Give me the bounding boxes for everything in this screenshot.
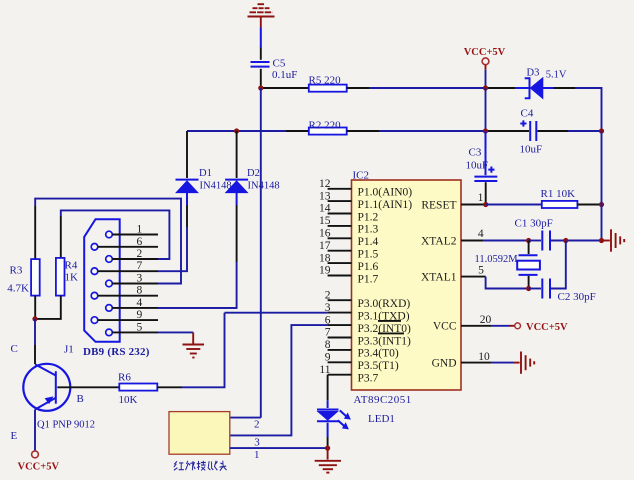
svg-text:LED1: LED1: [368, 413, 395, 425]
wire: IR pin2: [230, 417, 261, 419]
power VCC+5V at pin 20: [515, 322, 568, 333]
svg-text:P3.5(T1): P3.5(T1): [358, 360, 399, 372]
junction crystal bottom: [526, 286, 531, 291]
DB9 pin 8 stub: [98, 295, 158, 297]
junction LED/IR1/ground: [325, 446, 330, 451]
crystal Y1 stem bottom: [528, 276, 530, 289]
power VCC+5V top: [464, 47, 506, 88]
svg-text:19: 19: [319, 265, 331, 277]
capacitor C3 polarized: [474, 167, 497, 182]
svg-text:XTAL2: XTAL2: [421, 235, 457, 247]
svg-text:8: 8: [325, 339, 331, 351]
svg-text:IN4148: IN4148: [200, 180, 232, 191]
label C4 value: [520, 107, 543, 155]
resistor R5: [309, 85, 347, 92]
label D2: [247, 168, 280, 191]
wire: RESET stub: [461, 204, 486, 206]
wire: R2 row (C4 row) full: [187, 130, 309, 132]
IC pin 11 stub: [328, 374, 352, 376]
capacitor C2: [542, 279, 550, 299]
svg-text:6: 6: [325, 314, 331, 326]
wire: R3 top loop to DB9 pin3: [35, 199, 181, 284]
LED1: [317, 400, 351, 446]
label D3 5.1V: [527, 67, 567, 80]
transistor Q1 circle: [23, 364, 70, 411]
ground below LED: [315, 448, 341, 473]
transistor Q1 collector leg: [35, 364, 56, 375]
DB9 pin 6 stub: [98, 246, 158, 248]
svg-text:4: 4: [478, 228, 484, 240]
svg-text:GND: GND: [432, 358, 457, 370]
wire: emitter to VCC: [34, 410, 36, 451]
resistor R4: [56, 258, 65, 296]
svg-text:VCC+5V: VCC+5V: [526, 322, 568, 333]
svg-text:P1.1(AIN1): P1.1(AIN1): [358, 199, 413, 211]
svg-text:C4: C4: [521, 107, 534, 119]
svg-text:P3.3(INT1): P3.3(INT1): [358, 335, 412, 347]
junction R1/rail: [599, 202, 604, 207]
svg-text:P3.4(T0): P3.4(T0): [358, 348, 399, 360]
IC pin 18 stub: [328, 262, 352, 264]
svg-text:R3: R3: [10, 264, 23, 276]
svg-text:2: 2: [325, 289, 331, 301]
svg-text:5: 5: [137, 321, 143, 333]
resistor R3: [31, 259, 40, 296]
svg-text:5.1V: 5.1V: [546, 70, 567, 81]
svg-text:10uF: 10uF: [520, 144, 543, 156]
junction R2 row at D2: [234, 128, 239, 133]
svg-text:P1.4: P1.4: [358, 236, 379, 248]
ground (earth) top, above C5: [248, 4, 275, 16]
wire: XTAL1 step down to C2 row: [486, 277, 529, 289]
junction VCC/R5 row: [483, 85, 488, 90]
wire: D3 to right rail corner: [554, 88, 602, 131]
diode D1: [176, 180, 199, 193]
IC pin 6 stub: [328, 324, 352, 326]
IC pin 12 stub: [328, 188, 352, 190]
label D1: [199, 168, 232, 191]
wire: C3 bottom to RESET junction: [485, 182, 487, 202]
wire: right rail 131 to 240.5: [601, 131, 603, 241]
svg-text:D1: D1: [199, 168, 212, 179]
svg-text:14: 14: [319, 203, 331, 215]
label R6: [118, 371, 138, 406]
resistor R1: [542, 201, 578, 208]
label R3: [7, 264, 29, 294]
svg-text:P1.5: P1.5: [358, 249, 379, 261]
wire: INT0 row, vertical and IR pin3: [230, 325, 328, 435]
wire: D1 anode down to DB9 pin7: [158, 193, 187, 272]
wire: D1 top branch: [186, 131, 188, 178]
wire: main vertical net C5 to IR pin2: [260, 88, 262, 418]
pin name P3.1(TXD) underlined: [358, 310, 410, 322]
svg-text:12: 12: [319, 178, 331, 190]
svg-text:C: C: [11, 343, 18, 355]
junction C5/R5 node: [258, 85, 263, 90]
wire: crystal junction to C2: [529, 288, 541, 290]
svg-text:C3: C3: [469, 146, 482, 158]
svg-text:IC2: IC2: [353, 170, 370, 182]
svg-text:D3: D3: [527, 67, 540, 78]
IC pin 3 stub: [328, 312, 352, 314]
DB9 pin 7 stub: [98, 270, 158, 272]
wire: R4 top loop to DB9 pin2: [61, 210, 170, 259]
junction rail/ground right: [599, 238, 604, 243]
svg-text:0.1uF: 0.1uF: [272, 69, 297, 81]
svg-text:R5 220: R5 220: [309, 74, 342, 86]
junction C4 row/right rail: [599, 128, 604, 133]
svg-text:18: 18: [319, 252, 331, 264]
crystal Y1: [517, 255, 540, 275]
svg-text:9: 9: [325, 352, 331, 364]
svg-text:11: 11: [319, 364, 330, 376]
svg-text:15: 15: [319, 215, 331, 227]
diode D3 zener: [516, 78, 554, 99]
svg-text:P1.6: P1.6: [358, 261, 379, 273]
wire: GND pin stub: [461, 362, 520, 364]
DB9 pin 5 stub and wire to ground: [112, 331, 193, 333]
IR receiver box: [169, 412, 230, 455]
svg-text:3: 3: [137, 273, 143, 285]
svg-text:4: 4: [137, 297, 143, 309]
wire: VCC column 88 to 131: [485, 88, 487, 131]
wire: R2 right to VCC junction: [347, 130, 486, 132]
svg-text:2: 2: [254, 419, 260, 431]
svg-text:1: 1: [478, 192, 484, 204]
transistor Q1 base bar: [55, 371, 57, 404]
wire: R6 right up to TXD row: [157, 313, 224, 388]
svg-text:J1: J1: [64, 343, 74, 355]
wire: C2 right up to C1 row: [551, 241, 566, 289]
svg-text:VCC: VCC: [433, 321, 457, 333]
DB9 pin 4 stub and wire: [112, 307, 236, 309]
wire: R5 row junction to D3: [488, 87, 516, 89]
wire: base to R6: [57, 386, 119, 388]
IC pin 16 stub: [328, 237, 352, 239]
ground sideways right: [602, 229, 625, 251]
DB9 pin 2 stub: [112, 258, 158, 260]
junction XTAL2/crystal/C1: [526, 238, 531, 243]
svg-text:13: 13: [319, 190, 331, 202]
svg-text:E: E: [11, 430, 18, 442]
svg-text:17: 17: [319, 240, 331, 252]
wire: R3 bottom to node C: [34, 296, 36, 319]
wire: R5 to VCC junction: [347, 87, 486, 89]
svg-text:XTAL1: XTAL1: [421, 271, 457, 283]
svg-text:C1 30pF: C1 30pF: [515, 217, 553, 229]
wire: D2 top branch: [236, 131, 238, 178]
transistor Q1 emitter leg with arrow: [35, 396, 56, 409]
svg-text:P1.3: P1.3: [358, 224, 379, 236]
svg-text:D2: D2: [247, 168, 260, 179]
svg-text:3: 3: [254, 437, 260, 449]
svg-text:IN4148: IN4148: [248, 180, 280, 191]
wire: C1 right to junction and rail: [551, 240, 602, 242]
svg-text:1: 1: [137, 224, 143, 236]
wire: R4 bottom to node C: [36, 296, 61, 319]
label 红外接收头 (hand-drawn strokes): [174, 461, 227, 471]
svg-text:C2 30pF: C2 30pF: [558, 291, 596, 303]
IC pin 14 stub: [328, 213, 352, 215]
IC pin 17 stub: [328, 250, 352, 252]
wire: ground stem to C5 (red/blue/black): [260, 18, 262, 60]
DB9 pin 9 stub: [98, 319, 158, 321]
ground sideways at GND pin: [521, 352, 534, 374]
wire: XTAL2 row: [461, 240, 529, 242]
diode D2: [225, 180, 248, 193]
svg-text:DB9 (RS 232): DB9 (RS 232): [83, 346, 150, 358]
svg-text:6: 6: [137, 236, 143, 248]
IC pin 2 stub: [328, 299, 352, 301]
svg-text:R6: R6: [118, 371, 131, 383]
svg-text:P3.7: P3.7: [358, 373, 379, 385]
wire: RESET to R1: [486, 204, 542, 206]
svg-text:P3.0(RXD): P3.0(RXD): [358, 298, 411, 310]
wire: C4 area: [488, 130, 602, 132]
svg-text:P1.0(AIN0): P1.0(AIN0): [358, 187, 413, 199]
ground below DB9 pin5: [183, 332, 205, 357]
svg-text:10K: 10K: [119, 394, 138, 406]
IC pin 8 stub: [328, 349, 352, 351]
svg-text:RESET: RESET: [421, 199, 456, 211]
DB9 pin 3 stub: [112, 283, 158, 285]
svg-text:5: 5: [478, 264, 484, 276]
junction C1 right: [563, 238, 568, 243]
wire: IR pin1 row to LED node: [230, 447, 326, 449]
wire: R5 row left: [263, 87, 309, 89]
IC pin 19 stub: [328, 275, 352, 277]
wire: collector: [34, 319, 36, 364]
junction RESET/C3: [483, 202, 488, 207]
wire: XTAL2 junction to C1: [529, 240, 541, 242]
IC U1 AT89C2051 body: [352, 180, 462, 390]
svg-text:R4: R4: [65, 260, 78, 272]
svg-text:R2 220: R2 220: [309, 119, 342, 131]
IC pin 9 stub: [328, 361, 352, 363]
wire: D2 anode down to DB9 pin4: [158, 193, 237, 308]
DB9 pin circles: [91, 231, 112, 336]
svg-text:1: 1: [254, 449, 260, 461]
svg-text:P1.7: P1.7: [358, 273, 379, 285]
wire: R1 right to rail: [577, 204, 601, 206]
svg-text:16: 16: [319, 228, 331, 240]
capacitor C4 polarized: [520, 120, 536, 141]
IC pin 15 stub: [328, 225, 352, 227]
svg-text:7: 7: [325, 327, 331, 339]
svg-text:R1 10K: R1 10K: [541, 188, 576, 200]
svg-text:10: 10: [478, 351, 490, 363]
svg-text:4.7K: 4.7K: [7, 283, 29, 295]
IC pin 7 stub: [328, 337, 352, 339]
wire: VCC col down to C3: [485, 131, 487, 175]
label R4: [65, 260, 79, 284]
svg-text:1K: 1K: [65, 271, 79, 283]
IC pin 13 stub: [328, 200, 352, 202]
svg-text:20: 20: [480, 314, 492, 326]
resistor R6: [119, 384, 157, 391]
wire: TXD row to IC pin3: [225, 312, 328, 314]
svg-text:8: 8: [137, 285, 143, 297]
svg-text:VCC+5V: VCC+5V: [18, 461, 60, 472]
svg-text:AT89C2051: AT89C2051: [354, 394, 412, 406]
svg-text:Q1 PNP 9012: Q1 PNP 9012: [37, 419, 95, 430]
DB9 pin 1 stub: [112, 234, 158, 236]
label C5 value: [272, 58, 297, 82]
svg-text:P1.2: P1.2: [358, 211, 379, 223]
svg-text:9: 9: [137, 309, 143, 321]
svg-text:3: 3: [325, 302, 331, 314]
capacitor C1: [542, 231, 550, 251]
power VCC+5V bottom left: [18, 451, 60, 472]
capacitor C5: [251, 62, 270, 67]
crystal Y1 stem top: [528, 241, 530, 255]
resistor R2: [309, 128, 347, 135]
svg-text:B: B: [77, 393, 84, 405]
svg-text:7: 7: [137, 260, 143, 272]
svg-text:10uF: 10uF: [466, 160, 489, 172]
junction VCC/C4 row: [483, 128, 488, 133]
wire: VCC pin stub: [461, 325, 515, 327]
wire: C5 to junction: [260, 69, 262, 86]
wire: pin11 down to LED: [327, 375, 329, 401]
svg-text:C5: C5: [273, 58, 286, 70]
label C3 value: [466, 146, 489, 171]
junction node C (R3/R4/collector): [32, 316, 37, 321]
svg-text:VCC+5V: VCC+5V: [464, 47, 506, 58]
wire: XTAL1 stub: [461, 276, 486, 278]
svg-text:2: 2: [137, 248, 143, 260]
connector J1 DB9 body: [84, 219, 120, 342]
pin name P3.2(INT0) underlined: [358, 323, 412, 335]
